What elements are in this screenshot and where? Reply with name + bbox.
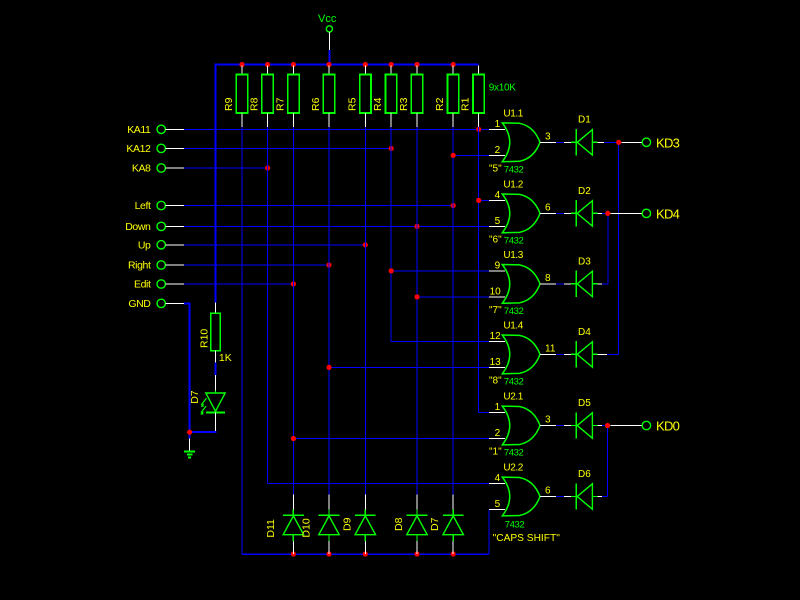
svg-text:4: 4	[495, 190, 501, 201]
wire R3 column	[416, 127, 418, 495]
junction dots on Vcc bus	[239, 62, 455, 67]
svg-text:R10: R10	[199, 329, 211, 348]
svg-text:D7: D7	[429, 517, 441, 531]
junction pin2/R7	[291, 436, 296, 441]
wire KA11 row to U1.1 pin 1	[184, 128, 489, 130]
svg-text:1: 1	[495, 119, 501, 130]
svg-text:11: 11	[545, 343, 556, 354]
diode D5	[556, 398, 598, 439]
svg-text:3: 3	[545, 415, 551, 426]
svg-text:D4: D4	[578, 327, 591, 338]
wire KA8 row	[184, 167, 268, 169]
power Vcc	[318, 13, 337, 64]
or-gate U1.3 (7432)	[184, 115, 680, 554]
svg-text:KD0: KD0	[656, 419, 680, 434]
svg-text:3: 3	[545, 131, 551, 142]
svg-text:6: 6	[545, 486, 551, 497]
wire R7 column	[292, 127, 294, 495]
junction GND/LED	[187, 430, 192, 435]
junction KD4	[605, 211, 610, 216]
wire Edit row	[184, 283, 293, 285]
svg-text:7432: 7432	[504, 235, 524, 246]
svg-text:KA12: KA12	[126, 143, 151, 155]
junction Right/R6	[326, 262, 331, 267]
junction Down/R3	[414, 224, 419, 229]
wire KA12 row	[184, 147, 391, 149]
wire KD4 net (D2 out, bus down to D3)	[598, 213, 642, 284]
svg-text:9x10K: 9x10K	[489, 83, 516, 94]
svg-text:D2: D2	[578, 186, 591, 197]
resistor R7	[274, 66, 299, 128]
svg-text:KD3: KD3	[656, 135, 680, 150]
svg-text:D1: D1	[578, 115, 591, 126]
svg-text:Right: Right	[128, 260, 151, 272]
diode D6	[556, 469, 598, 510]
or-gate U1.1 (7432)	[184, 108, 680, 554]
svg-text:R8: R8	[249, 97, 261, 111]
svg-text:7432: 7432	[504, 376, 524, 387]
diode D7 (bottom row)	[429, 495, 463, 554]
svg-text:8: 8	[545, 273, 551, 284]
port KA8	[132, 163, 184, 175]
svg-text:U1.4: U1.4	[503, 320, 523, 331]
svg-text:D7: D7	[189, 390, 201, 404]
port Down	[125, 221, 184, 233]
svg-text:U2.2: U2.2	[503, 463, 523, 474]
port KA12	[126, 143, 184, 155]
junction pin13/R6	[326, 365, 331, 370]
port KD4	[642, 206, 679, 221]
wire Up row	[184, 244, 365, 246]
wire R9 column	[241, 127, 243, 554]
resistor R4	[372, 66, 397, 128]
diode D11 (bottom row)	[265, 495, 304, 554]
svg-text:7432: 7432	[504, 306, 524, 317]
wire U2.2 pin 5 riser	[488, 510, 490, 555]
svg-text:KA11: KA11	[127, 124, 151, 136]
wire U1.4 pin 13 branch	[329, 366, 489, 368]
wire U1.3 pin 9 branch	[391, 270, 489, 272]
port Left	[135, 200, 184, 212]
svg-text:D10: D10	[301, 518, 313, 537]
ground	[184, 432, 195, 457]
led D7	[189, 363, 225, 433]
junction pin10/R3	[414, 294, 419, 299]
svg-text:2: 2	[495, 145, 501, 156]
or-gate U1.2 (7432)	[184, 115, 680, 554]
wire R5 column	[364, 127, 366, 495]
svg-text:"5": "5"	[489, 163, 502, 174]
svg-text:13: 13	[490, 357, 502, 368]
wire R8 column to U2.2 pin 4	[268, 127, 489, 484]
svg-text:12: 12	[490, 331, 502, 342]
resistor R1	[460, 66, 485, 128]
svg-text:7432: 7432	[505, 520, 525, 531]
port KA11	[127, 124, 184, 136]
svg-text:D3: D3	[578, 256, 591, 267]
junction KA12/R4	[389, 146, 394, 151]
svg-text:10: 10	[490, 286, 502, 297]
or-gate U1.4 (7432)	[184, 115, 680, 554]
diode D2	[556, 186, 598, 227]
svg-text:U1.3: U1.3	[503, 250, 523, 261]
svg-text:1: 1	[495, 402, 501, 413]
svg-text:U2.1: U2.1	[503, 392, 523, 403]
svg-text:Vcc: Vcc	[318, 13, 337, 25]
resistor R6	[310, 66, 335, 128]
svg-text:"8": "8"	[489, 375, 502, 386]
svg-text:R2: R2	[434, 97, 446, 111]
svg-text:KA8: KA8	[132, 163, 151, 175]
svg-text:7432: 7432	[504, 164, 524, 175]
diode D3	[556, 256, 598, 297]
wire Vcc top bus	[215, 65, 479, 303]
svg-text:5: 5	[495, 499, 501, 510]
junction pin9/R4	[389, 268, 394, 273]
svg-text:D6: D6	[578, 469, 591, 480]
resistor R8	[249, 66, 274, 128]
wire KD0 net (D5 out, bus down to D6)	[598, 426, 642, 497]
junction KD0	[605, 423, 610, 428]
svg-text:D5: D5	[578, 398, 591, 409]
junction dots bottom bus	[291, 551, 456, 556]
svg-text:Up: Up	[138, 239, 151, 251]
resistor R3	[398, 66, 423, 128]
svg-text:4: 4	[495, 473, 501, 484]
junction KD3	[616, 140, 621, 145]
wire R1 column to U2.1 pin 1	[479, 127, 489, 413]
or-gate U2.2 (7432)	[184, 115, 680, 554]
svg-text:9: 9	[495, 260, 501, 271]
svg-text:U1.2: U1.2	[503, 179, 523, 190]
wire R6 column	[328, 127, 330, 495]
svg-text:2: 2	[495, 428, 501, 439]
diode D8 (bottom row)	[393, 495, 427, 554]
svg-text:R6: R6	[310, 97, 322, 111]
junction Up/R5	[363, 242, 368, 247]
junction Edit/R7	[291, 281, 296, 286]
wire U2.1 pin 2 branch	[293, 438, 489, 440]
port Edit	[134, 279, 184, 291]
svg-text:U1.1: U1.1	[503, 108, 523, 119]
svg-text:R5: R5	[346, 97, 358, 111]
or-gate U2.1 (7432)	[184, 115, 680, 554]
svg-text:R9: R9	[223, 97, 235, 111]
svg-text:5: 5	[495, 216, 501, 227]
wire R4 column to U1.4 pin 12	[391, 127, 489, 341]
svg-text:R4: R4	[372, 97, 384, 111]
resistor R5	[346, 66, 371, 128]
resistor R9	[223, 66, 248, 128]
svg-text:D9: D9	[341, 517, 353, 531]
svg-text:6: 6	[545, 202, 551, 213]
svg-text:KD4: KD4	[656, 206, 680, 221]
wire bottom bus (CAPS SHIFT net)	[242, 553, 489, 555]
junction KA11/R1	[476, 127, 481, 132]
wire R2 column	[452, 127, 454, 495]
svg-text:R1: R1	[460, 97, 472, 111]
wire U1.1 pin 2 branch	[453, 154, 489, 156]
svg-text:1K: 1K	[219, 352, 232, 364]
wire Left row	[184, 205, 453, 207]
port Right	[128, 260, 184, 272]
wire U1.2 pin 4 branch	[479, 199, 489, 201]
wire Right row	[184, 264, 329, 266]
svg-text:R3: R3	[398, 97, 410, 111]
svg-text:Left: Left	[135, 200, 151, 212]
svg-text:"7": "7"	[489, 305, 502, 316]
resistor R10	[199, 302, 221, 362]
svg-text:Down: Down	[125, 221, 151, 233]
wire GND row	[184, 303, 191, 432]
wire Down row to U1.2 pin 5	[184, 225, 489, 227]
svg-text:"1": "1"	[489, 447, 502, 458]
junction KA8/R8	[265, 165, 270, 170]
diode D4	[556, 327, 598, 368]
diode D10 (bottom row)	[301, 495, 340, 554]
port KD0	[642, 419, 679, 434]
svg-text:D11: D11	[265, 519, 277, 538]
diode D9 (bottom row)	[341, 495, 375, 554]
svg-text:D8: D8	[393, 517, 405, 531]
svg-text:R7: R7	[274, 97, 286, 111]
junction pin2/R2	[451, 153, 456, 158]
svg-text:"6": "6"	[489, 234, 502, 245]
resistor R2	[434, 66, 459, 128]
svg-text:GND: GND	[128, 298, 151, 310]
wire KD3 net (D1 out, bus down to D4)	[598, 142, 642, 354]
port KD3	[642, 135, 679, 150]
svg-text:Edit: Edit	[134, 279, 151, 291]
junction pin4/R1	[476, 198, 481, 203]
wire U1.3 pin 10 branch	[417, 296, 489, 298]
port GND	[128, 298, 184, 310]
svg-text:"CAPS SHIFT": "CAPS SHIFT"	[493, 533, 561, 544]
junction Left/R2	[451, 203, 456, 208]
svg-text:7432: 7432	[504, 448, 524, 459]
port Up	[138, 239, 184, 251]
diode D1	[556, 115, 598, 156]
